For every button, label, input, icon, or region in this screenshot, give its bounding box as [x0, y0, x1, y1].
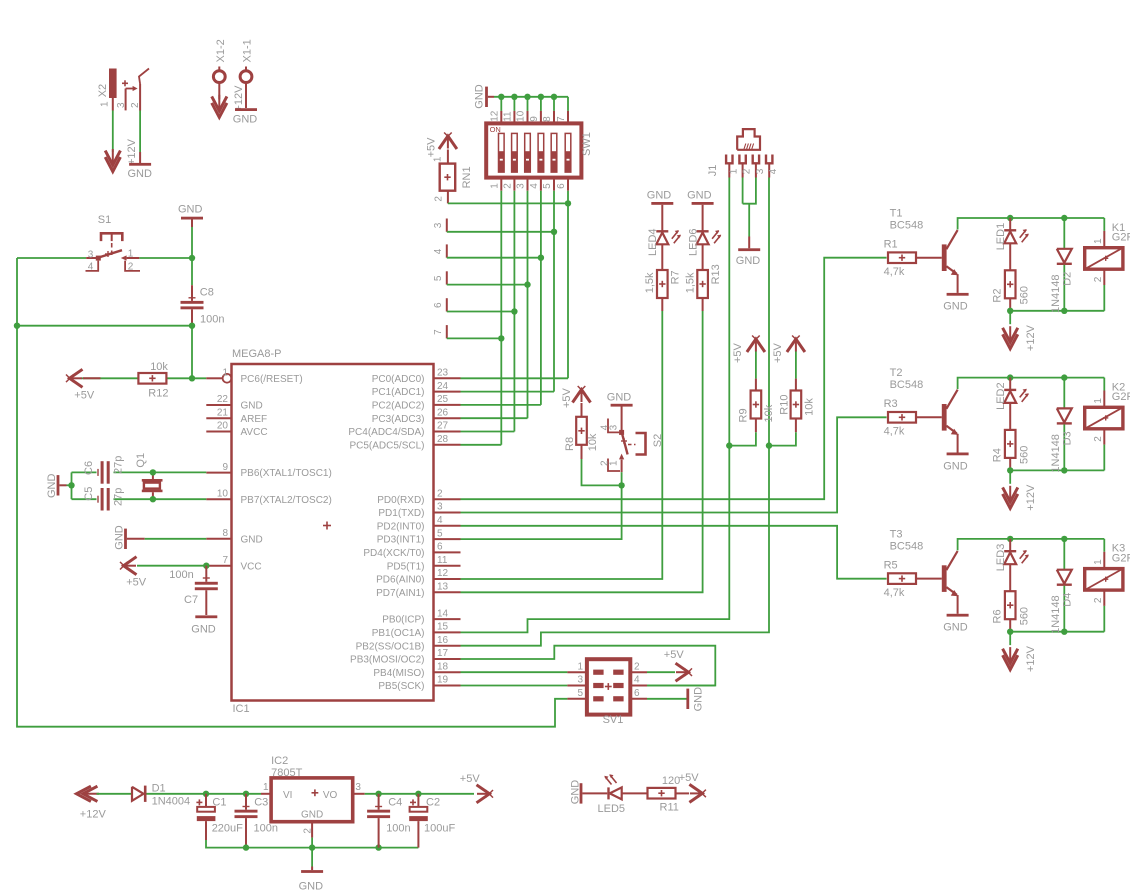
SV1 pin stubs [567, 671, 587, 673]
junction D2 bottom [1061, 308, 1067, 314]
svg-text:PD0(RXD): PD0(RXD) [377, 495, 424, 506]
IC1 pin 3 PD1(TXD) [434, 512, 461, 514]
wire +12V to D1 [97, 793, 132, 795]
wires SW1 bottom columns [500, 191, 502, 445]
svg-text:+12V: +12V [1025, 645, 1037, 672]
svg-text:10k: 10k [150, 361, 168, 373]
svg-text:R5: R5 [884, 560, 898, 572]
resistor R1 4,7k [888, 252, 916, 263]
wire T1 collector rail [958, 218, 1105, 230]
svg-text:PC6(/RESET): PC6(/RESET) [241, 374, 303, 385]
svg-text:C7: C7 [184, 594, 198, 606]
IC1 pin 4 PD2(INT0) [434, 525, 461, 527]
junction C1 top [203, 791, 209, 797]
svg-text:2: 2 [1093, 436, 1104, 442]
svg-text:GND: GND [128, 168, 153, 180]
svg-text:PC4(ADC4/SDA): PC4(ADC4/SDA) [348, 427, 424, 438]
IC1 pin 17 PB3(MOSI/OC2) [434, 658, 461, 660]
capacitor C4 100n [378, 794, 380, 810]
svg-text:1N4004: 1N4004 [152, 796, 191, 808]
wire PD0 to T1 base [461, 258, 887, 500]
junction S1 gnd [189, 255, 195, 261]
IC1 pin 26 PC3(ADC3) [434, 417, 461, 419]
IC1 pin 14 PB0(ICP) [434, 618, 461, 620]
svg-text:R8: R8 [564, 437, 576, 451]
resistor R10 10k [795, 352, 797, 379]
wire RN1 pin 5 [447, 284, 528, 286]
junction D2 rail [1061, 215, 1067, 221]
ground GND (SV1) [686, 689, 689, 709]
junction C3 bottom [243, 844, 249, 850]
svg-text:D4: D4 [1062, 593, 1074, 607]
svg-text:12: 12 [437, 568, 449, 579]
svg-text:R12: R12 [148, 387, 168, 399]
svg-text:PB5(SCK): PB5(SCK) [378, 681, 424, 692]
svg-text:7805T: 7805T [271, 767, 302, 779]
svg-text:C1: C1 [212, 796, 226, 808]
wire PD6 to LED4 column [461, 311, 663, 579]
SW1 pin 9 stub [540, 111, 542, 124]
svg-text:PB1(OC1A): PB1(OC1A) [372, 628, 425, 639]
wire RN1 pin 7 [447, 337, 502, 339]
svg-text:25: 25 [437, 394, 449, 405]
capacitor C1 220uF [205, 794, 207, 807]
wire T1 bottom row [1010, 310, 1104, 312]
IC1 pin 6 PD4(XCK/T0) [434, 551, 461, 553]
svg-text:MEGA8-P: MEGA8-P [232, 348, 282, 360]
wire pin8 row [145, 538, 207, 540]
IC1 pin 15 PB1(OC1A) [434, 631, 461, 633]
svg-text:3: 3 [577, 675, 583, 686]
svg-text:X2: X2 [97, 84, 109, 97]
IC1 pin 10 PB7(XTAL2/TOSC2) [206, 498, 231, 500]
svg-text:SV1: SV1 [603, 714, 624, 726]
wire S2 to junction [621, 472, 623, 485]
junction R6 bottom [1007, 629, 1013, 635]
svg-text:PB2(SS/OC1B): PB2(SS/OC1B) [356, 641, 425, 652]
svg-text:100n: 100n [169, 569, 193, 581]
IC1 pin 11 PD5(T1) [434, 565, 461, 567]
voltage regulator IC2 7805T [271, 778, 353, 822]
svg-text:2: 2 [434, 196, 445, 202]
wire S1 pin1 to GND column [139, 257, 192, 259]
IC1 pin 24 PC1(ADC1) [434, 391, 461, 393]
junction R12 reset [189, 375, 195, 381]
junction col RN1 pin 4 [538, 255, 544, 261]
svg-text:GND: GND [233, 114, 257, 126]
ground GND (J1) [748, 237, 750, 249]
wire gnd stem [311, 848, 313, 867]
svg-text:4: 4 [529, 183, 540, 189]
pad X1-1 [240, 71, 252, 83]
svg-text:C6: C6 [83, 461, 95, 475]
resistor R3 4,7k [888, 412, 916, 423]
wire SW1 top pin 7 [567, 97, 569, 111]
svg-text:LED4: LED4 [647, 228, 659, 256]
SW1 slider 6 [565, 133, 571, 172]
svg-text:3: 3 [116, 102, 127, 108]
SW1 pin 6 stub [567, 178, 569, 191]
wire PB3 to SV1 pin4 [461, 646, 716, 686]
supply +5V (LED5) [690, 792, 702, 794]
switch S2 [619, 430, 624, 435]
capacitor C2 100uF [417, 794, 419, 807]
junction C4 top [375, 791, 381, 797]
ground GND (supply) [311, 867, 313, 871]
resistor R5 4,7k [888, 573, 916, 584]
svg-text:17: 17 [437, 648, 449, 659]
ground GND (LED5) [580, 783, 583, 803]
svg-text:GND: GND [178, 204, 203, 216]
svg-text:2: 2 [130, 102, 141, 108]
svg-text:PB6(XTAL1/TOSC1): PB6(XTAL1/TOSC1) [241, 468, 332, 479]
svg-text:6: 6 [634, 688, 640, 699]
SW1 slider 2 [512, 133, 518, 172]
IC1 pin 12 PD6(AIN0) [434, 578, 461, 580]
IC1 pin 22 GND [206, 404, 231, 406]
wire R12 row [82, 377, 138, 379]
wire SV1 pin2 to +5V [647, 671, 675, 673]
junction SW1 rail 1 [498, 94, 504, 100]
wire PD1 to T2 base [461, 417, 887, 512]
svg-text:7: 7 [556, 116, 567, 122]
SW1 pin 4 stub [540, 178, 542, 191]
svg-text:16: 16 [437, 635, 449, 646]
svg-text:G2R: G2R [1112, 231, 1130, 243]
svg-text:LED5: LED5 [598, 803, 626, 815]
relay K1 G2R [1103, 218, 1105, 231]
wire T2 collector rail [958, 378, 1105, 390]
SW1 pin 8 stub [553, 111, 555, 124]
wire J1 gnd stem [748, 204, 750, 237]
svg-text:6: 6 [556, 183, 567, 189]
svg-text:10k: 10k [803, 398, 815, 416]
svg-text:24: 24 [437, 381, 449, 392]
svg-text:+5V: +5V [732, 342, 744, 363]
IC1 pin 2 PD0(RXD) [434, 498, 461, 500]
svg-text:T2: T2 [890, 367, 903, 379]
svg-text:1: 1 [99, 101, 110, 107]
IC1 pin 20 AVCC [206, 431, 231, 433]
svg-text:3: 3 [88, 249, 94, 260]
capacitor C3 100n [245, 794, 247, 810]
wire SV1 pin6 to GND [647, 698, 687, 700]
junction crystal top [150, 469, 156, 475]
svg-text:3: 3 [755, 168, 766, 174]
svg-text:27p: 27p [112, 488, 124, 506]
wire SW1 top pin 11 [513, 97, 515, 111]
supply +12V (X1-2) [218, 83, 220, 100]
wire GND to C8 junction [191, 227, 193, 285]
svg-text:GND: GND [191, 623, 216, 635]
svg-text:4: 4 [433, 248, 444, 254]
svg-text:GND: GND [46, 474, 58, 499]
IC1 pin 5 PD3(INT1) [434, 538, 461, 540]
svg-text:IC2: IC2 [271, 755, 288, 767]
resistor R12 10k [83, 377, 101, 379]
junction D4 bottom [1061, 629, 1067, 635]
svg-text:1: 1 [608, 460, 619, 466]
svg-text:SW1: SW1 [581, 132, 593, 156]
supply +5V (R9) [755, 340, 757, 352]
wire T3 bottom row [1010, 631, 1104, 633]
svg-text:PD2(INT0): PD2(INT0) [377, 521, 425, 532]
svg-text:3: 3 [437, 502, 443, 513]
svg-text:1: 1 [1093, 559, 1104, 565]
junction col RN1 pin 5 [524, 281, 530, 287]
svg-text:PB4(MISO): PB4(MISO) [373, 668, 424, 679]
svg-text:PD7(AIN1): PD7(AIN1) [376, 588, 424, 599]
supply +5V (R10) [795, 340, 797, 352]
wire PB2 to J1 pin4 [461, 178, 770, 646]
wire X2 pin2 to GND [139, 111, 141, 153]
junction IC2 gnd [309, 844, 315, 850]
svg-text:120: 120 [662, 775, 680, 787]
IC1 pin 16 PB2(SS/OC1B) [434, 645, 461, 647]
svg-text:GND: GND [943, 460, 968, 472]
wire SW1 gnd rail [494, 96, 568, 98]
junction D3 rail [1061, 374, 1067, 380]
svg-text:1N4148: 1N4148 [1050, 434, 1062, 473]
svg-text:7: 7 [222, 555, 228, 566]
junction SW1 rail 4 [538, 94, 544, 100]
RN1 pin 5 stub [446, 271, 448, 284]
svg-text:220uF: 220uF [212, 823, 243, 835]
svg-text:GND: GND [736, 255, 761, 267]
svg-text:5: 5 [433, 275, 444, 281]
svg-text:100n: 100n [254, 823, 278, 835]
svg-text:+12V: +12V [233, 85, 245, 112]
transistor T2 BC548 [942, 404, 947, 431]
svg-text:X1-2: X1-2 [215, 39, 227, 62]
junction S2 R8 [618, 482, 624, 488]
svg-text:C5: C5 [83, 487, 95, 501]
svg-text:1: 1 [577, 661, 583, 672]
wire RN1 pin 6 [447, 311, 515, 313]
svg-text:6: 6 [433, 302, 444, 308]
junction R4 bottom [1007, 467, 1013, 473]
IC1 pin 27 PC4(ADC4/SDA) [434, 431, 461, 433]
svg-text:1: 1 [263, 782, 269, 793]
wire PB1 to J1 pin1 [461, 178, 730, 633]
svg-text:22: 22 [217, 394, 229, 405]
svg-text:C8: C8 [200, 286, 214, 298]
svg-text:6: 6 [437, 542, 443, 553]
svg-text:PB0(ICP): PB0(ICP) [382, 615, 424, 626]
junction C8 bottom [189, 323, 195, 329]
svg-text:+12V: +12V [1025, 324, 1037, 351]
junction col RN1 pin 6 [511, 308, 517, 314]
wire IC2 output [353, 793, 365, 795]
wire SW1 top pin 12 [500, 97, 502, 111]
svg-text:5: 5 [577, 688, 583, 699]
wire R9 to column [729, 432, 756, 445]
junction R2 bottom [1007, 308, 1013, 314]
svg-text:GND: GND [647, 190, 672, 202]
junction R10 [766, 442, 772, 448]
capacitor C5 27p [97, 496, 99, 503]
SW1 pin 10 stub [527, 111, 529, 124]
svg-text:5: 5 [542, 183, 553, 189]
wire C8 bottom to R12 row [191, 321, 193, 379]
transistor T3 BC548 [942, 565, 947, 592]
svg-text:2: 2 [742, 168, 753, 174]
wire SW1 top pin 9 [540, 97, 542, 111]
svg-text:27p: 27p [112, 456, 124, 474]
svg-text:9: 9 [222, 462, 228, 473]
svg-text:R9: R9 [737, 408, 749, 422]
svg-text:BC548: BC548 [890, 540, 924, 552]
svg-text:LED2: LED2 [995, 382, 1007, 410]
junction LED2 rail [1007, 374, 1013, 380]
svg-text:14: 14 [437, 608, 449, 619]
wire crystal gnd link [67, 484, 72, 486]
junction SW1 rail 2 [511, 94, 517, 100]
junction col6 RN1 [565, 200, 571, 206]
svg-text:IC1: IC1 [233, 703, 250, 715]
svg-text:+5V: +5V [679, 772, 700, 784]
svg-text:R3: R3 [884, 398, 898, 410]
resistor R4 560 [1009, 403, 1011, 430]
transistor T1 BC548 [942, 244, 947, 271]
svg-text:5: 5 [437, 528, 443, 539]
LED LED6 [702, 205, 704, 231]
svg-text:Q1: Q1 [135, 453, 147, 468]
ground GND (X1-1) [245, 83, 247, 109]
ground GND (C7) [195, 615, 217, 618]
svg-text:4,7k: 4,7k [884, 426, 905, 438]
svg-text:3: 3 [433, 222, 444, 228]
RN1 pin 6 stub [446, 298, 448, 311]
svg-text:18: 18 [437, 661, 449, 672]
svg-text:G2R: G2R [1112, 552, 1130, 564]
svg-text:8: 8 [222, 528, 228, 539]
wire PB4 to SV1 pin1 [461, 671, 568, 673]
supply +12V (input) [83, 793, 100, 795]
ground GND (T2) [957, 434, 959, 453]
svg-text:VO: VO [323, 790, 338, 801]
svg-text:PD6(AIN0): PD6(AIN0) [376, 575, 424, 586]
IC1 pin 8 GND [206, 538, 231, 540]
SW1 pin 2 stub [513, 178, 515, 191]
IC1 pin 21 AREF [206, 417, 231, 419]
IC1 pin 28 PC5(ADC5/SCL) [434, 444, 461, 446]
wire R8 to junction [582, 459, 622, 485]
svg-text:R10: R10 [779, 395, 791, 415]
svg-text:D1: D1 [152, 782, 166, 794]
supply +12V (X2 pin1) [112, 149, 114, 166]
resistor R8 10k [581, 403, 583, 417]
svg-text:1: 1 [128, 249, 134, 260]
svg-text:10k: 10k [763, 404, 775, 422]
svg-text:J1: J1 [707, 165, 719, 177]
IC U1 MEGA8-P box [232, 364, 434, 701]
svg-text:560: 560 [1018, 446, 1030, 464]
svg-text:1: 1 [1093, 398, 1104, 404]
svg-text:2: 2 [437, 488, 443, 499]
wire J1 pin2-3 to GND [742, 178, 744, 204]
wire RN1 pin 3 [447, 231, 554, 233]
svg-text:GND: GND [241, 534, 263, 545]
resistor R11 120 [622, 792, 648, 794]
LED LED5 [582, 792, 607, 794]
wire T3 collector rail [958, 539, 1105, 551]
wire pin10 row [72, 498, 97, 500]
svg-text:4,7k: 4,7k [884, 266, 905, 278]
svg-text:4: 4 [437, 515, 443, 526]
ground GND (T1) [957, 274, 959, 293]
svg-text:GND: GND [114, 525, 126, 550]
svg-text:20: 20 [217, 421, 229, 432]
wire SW1 top pin 10 [527, 97, 529, 111]
wire RN1 pin2 to column 6 [448, 202, 568, 204]
connector X2 [109, 69, 117, 99]
junction D4 rail [1061, 536, 1067, 542]
resistor R6 560 [1009, 564, 1011, 591]
RN1 pin 7 stub [446, 325, 448, 338]
svg-text:R2: R2 [991, 289, 1003, 303]
IC1 pin 25 PC2(ADC2) [434, 404, 461, 406]
svg-text:PC1(ADC1): PC1(ADC1) [372, 387, 425, 398]
svg-text:+5V: +5V [126, 577, 147, 589]
wire R7 down [661, 298, 663, 311]
svg-text:10: 10 [217, 488, 229, 499]
junction crystal bottom [150, 496, 156, 502]
IC1 pin 19 PB5(SCK) [434, 685, 461, 687]
svg-text:560: 560 [1018, 286, 1030, 304]
svg-text:560: 560 [1018, 607, 1030, 625]
SW1 pin 3 stub [527, 178, 529, 191]
svg-text:1: 1 [728, 168, 739, 174]
svg-text:GND: GND [943, 301, 968, 313]
resistor R7 1,5k [661, 244, 663, 270]
svg-text:3: 3 [608, 424, 619, 430]
svg-text:+5V: +5V [460, 773, 481, 785]
svg-text:ON: ON [490, 125, 501, 134]
svg-text:10: 10 [516, 110, 527, 122]
svg-text:21: 21 [217, 407, 229, 418]
svg-text:C4: C4 [388, 796, 402, 808]
svg-text:4: 4 [634, 675, 640, 686]
supply +5V (RN1) [447, 137, 449, 149]
junction C3 top [243, 791, 249, 797]
wire left rail vertical [17, 258, 567, 727]
ground GND (X2 pin2) [139, 152, 141, 163]
wire PB5 to SV1 pin3 [461, 685, 568, 687]
svg-text:R13: R13 [710, 264, 722, 284]
wire SW1 top pin 8 [553, 97, 555, 111]
SW1 slider 5 [551, 133, 557, 172]
wire C1 to gnd rail [206, 840, 418, 848]
svg-text:VI: VI [283, 790, 292, 801]
supply +5V (R12) [70, 377, 82, 379]
wire R13 down [702, 298, 704, 311]
junction col RN1 pin 3 [551, 229, 557, 235]
SW1 slider 1 [499, 133, 505, 172]
wire PD7 to LED6 column [461, 311, 703, 592]
svg-text:S1: S1 [98, 214, 111, 226]
wire S1 net top-left rail [17, 257, 86, 259]
svg-text:1N4148: 1N4148 [1050, 595, 1062, 634]
svg-text:3: 3 [355, 782, 361, 793]
svg-text:T3: T3 [890, 528, 903, 540]
SW1 pin 1 stub [500, 178, 502, 191]
svg-text:27: 27 [437, 421, 449, 432]
RN1 pin 4 stub [446, 244, 448, 257]
svg-text:PC5(ADC5/SCL): PC5(ADC5/SCL) [349, 440, 424, 451]
SW1 pin 12 stub [500, 111, 502, 124]
IC1 pin 1 PC6(/RESET) [206, 377, 222, 379]
